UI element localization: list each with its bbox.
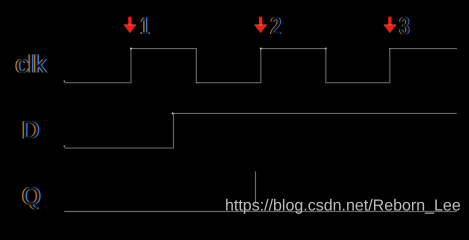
svg-text:https://blog.csdn.net/Reborn_L: https://blog.csdn.net/Reborn_Lee [225,198,461,215]
svg-text:D: D [22,116,39,144]
svg-text:clk: clk [16,51,47,79]
svg-text:3: 3 [400,13,410,40]
svg-text:Q: Q [22,183,40,211]
svg-text:2: 2 [271,13,281,40]
svg-text:1: 1 [141,13,150,40]
